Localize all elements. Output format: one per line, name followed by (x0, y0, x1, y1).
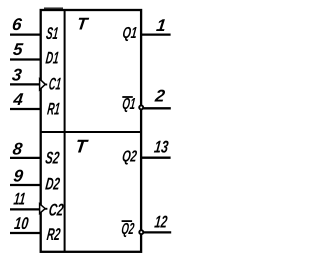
svg-text:13: 13 (153, 137, 170, 156)
svg-text:S1: S1 (45, 24, 59, 43)
svg-text:S2: S2 (44, 149, 60, 168)
svg-text:R2: R2 (46, 225, 62, 244)
svg-text:10: 10 (13, 214, 30, 233)
svg-text:D1: D1 (45, 49, 60, 68)
svg-text:Q2: Q2 (121, 148, 138, 165)
svg-text:11: 11 (13, 190, 27, 209)
svg-text:Q1: Q1 (122, 25, 138, 42)
svg-text:C2: C2 (48, 200, 65, 219)
svg-text:C1: C1 (48, 75, 62, 94)
svg-text:R1: R1 (46, 99, 61, 118)
svg-text:Q1: Q1 (121, 96, 136, 113)
svg-text:D2: D2 (44, 175, 61, 194)
svg-text:Q2: Q2 (120, 221, 135, 238)
